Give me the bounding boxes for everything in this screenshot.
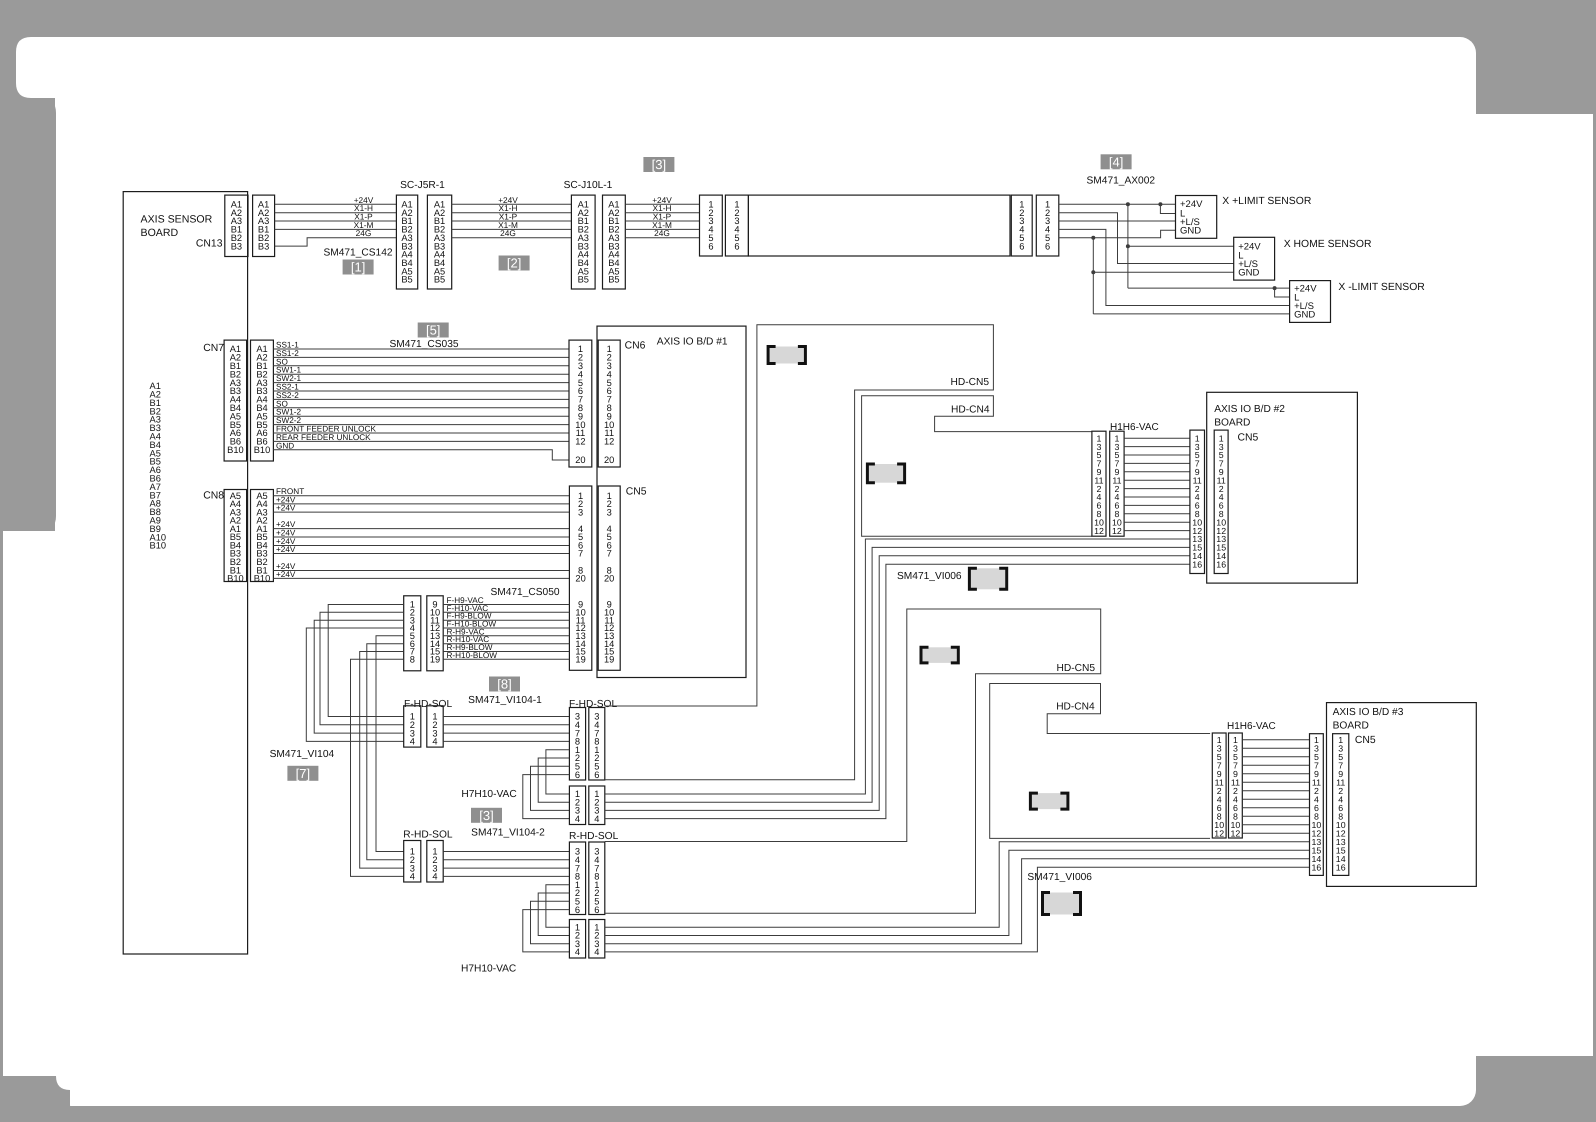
tag [8] [489,677,520,692]
svg-text:16: 16 [1216,559,1226,569]
wire SO [273,365,569,367]
connector H7H10-VAC upper right [589,786,605,825]
svg-text:B5: B5 [608,275,619,285]
wire SW1-1 [273,373,569,375]
svg-text:SM471_CS050: SM471_CS050 [490,587,559,598]
svg-text:[1]: [1] [351,260,365,275]
tag [2] [499,256,530,271]
svg-text:B3: B3 [258,241,269,251]
svg-text:BOARD: BOARD [1333,721,1369,732]
svg-text:SM471_VI104-2: SM471_VI104-2 [471,828,545,839]
connector R-HD-SOL head left [569,842,585,915]
svg-text:4: 4 [432,737,437,747]
connector SC-J10L-1 right [603,195,626,289]
svg-text:7: 7 [578,549,583,559]
svg-text:6: 6 [708,241,713,251]
wire F-H10-BLOW [443,627,569,629]
wire X1-H [625,212,699,214]
wire GND bus down [1092,238,1094,314]
wire H1H6-VAC pin 12 [1124,530,1190,532]
svg-text:20: 20 [604,455,614,465]
svg-text:B10: B10 [254,574,271,584]
wire CS050 pin1 to F-HD-SOL pin1 [328,605,404,717]
svg-text:AXIS SENSOR: AXIS SENSOR [141,214,213,226]
wire H1H6-VAC lower pin 3 [1242,747,1309,749]
svg-text:12: 12 [1094,526,1104,536]
svg-text:CN7: CN7 [203,343,224,354]
wire H1H6-VAC pin 1 [1124,437,1190,439]
svg-text:6: 6 [575,905,580,915]
connector CN5 board3 cable side [1310,734,1324,876]
gray callout box in lower HD-CN5 loop [921,647,958,663]
wire CS050 pin8 to R-HD-SOL pin4 [351,659,404,876]
wire H1H6-VAC lower pin 12 [1242,832,1309,834]
wire H1H6-VAC pin 3 [1124,446,1190,448]
svg-text:GND: GND [276,441,294,450]
wire H1H6-VAC lower pin 9 [1242,773,1309,775]
wire F-H10-VAC [443,611,569,613]
svg-text:R-HD-SOL: R-HD-SOL [403,830,453,841]
svg-text:6: 6 [1019,241,1024,251]
wire FRONT FEEDER UNLOCK [273,432,569,434]
gray tab left [0,98,56,531]
wire R-HD-SOL pin to H7H10-VAC pin4 [523,910,570,952]
cable run box [748,195,1010,256]
wire X1-H [275,212,397,214]
svg-text:SM471_VI104: SM471_VI104 [270,749,335,760]
svg-text:B10: B10 [254,445,271,455]
connector F-HD-SOL head right [589,708,605,781]
wire H1H6-VAC lower pin 1 [1242,739,1309,741]
wire pin5 to X+LIMIT GND [1059,230,1176,238]
sensor box X +LIMIT SENSOR [1176,196,1217,239]
wire REAR FEEDER UNLOCK [273,440,569,442]
svg-text:19: 19 [575,655,585,665]
tag [1] [343,260,374,275]
connector H1H6-VAC upper right [1110,431,1124,536]
wire GND to X HOME [1093,271,1233,273]
junction dot [1091,236,1095,240]
wire H1H6-VAC lower pin 5 [1242,756,1309,758]
connector F-HD-SOL harness left [404,706,421,747]
svg-text:4: 4 [594,814,599,824]
svg-text:16: 16 [1336,863,1346,873]
svg-text:H7H10-VAC: H7H10-VAC [461,789,516,800]
svg-text:4: 4 [594,947,599,957]
wire R-H10-BLOW [443,658,569,660]
wire R-HD-SOL pin to H7H10-VAC pin2 [538,893,569,936]
svg-text:BOARD: BOARD [1214,418,1250,429]
wire +24V CN8-A3 [273,511,569,513]
connector SC-J10L-1 left [571,195,595,289]
svg-text:24G: 24G [654,228,670,238]
connector F-HD-SOL harness right [427,706,443,747]
wire R-HD-SOL 2 [443,859,569,861]
wire jog +24V to L row of X+LIMIT [1160,204,1175,213]
connector F-HD-SOL head left [569,708,585,781]
svg-text:HD-CN5: HD-CN5 [1057,663,1096,674]
wire SS2-1 [273,390,569,392]
connector CN7 cable side [251,340,274,461]
connector CN13 cable side [253,195,275,256]
wire H7H10 upper pin1 to CN5 pin13 [605,539,1190,794]
svg-text:BOARD: BOARD [141,227,179,239]
svg-text:AXIS IO B/D #2: AXIS IO B/D #2 [1214,404,1285,415]
svg-text:[8]: [8] [497,677,511,692]
svg-text:CN13: CN13 [196,239,223,250]
svg-text:12: 12 [575,437,585,447]
wire H1H6-VAC pin 10 [1124,521,1190,523]
wire H7H10 upper pin4 to CN5 pin16 [605,564,1190,818]
svg-text:20: 20 [575,455,585,465]
svg-text:4: 4 [575,947,580,957]
svg-text:B10: B10 [227,445,244,455]
wire H1H6-VAC pin 7 [1124,462,1190,464]
right page-edge flap [1470,114,1593,1056]
svg-text:[3]: [3] [479,808,493,823]
wire R-H9-VAC [443,635,569,637]
svg-text:4: 4 [410,737,415,747]
wire H1H6-VAC lower pin 10 [1242,824,1309,826]
wire GND [273,450,569,460]
wire F-HD-SOL pin to H7H10-VAC pin4 [523,775,570,819]
connector SM471_AX002 right [1036,195,1059,256]
svg-text:[4]: [4] [1109,154,1123,169]
tag [7] [287,766,318,781]
wire H1H6-VAC pin 2 [1124,488,1190,490]
svg-text:X HOME SENSOR: X HOME SENSOR [1284,239,1372,250]
tag [4] [1101,154,1132,169]
svg-text:12: 12 [1231,829,1241,839]
wire X1-M [625,228,699,230]
connector H1H6-VAC lower right [1229,733,1243,838]
svg-text:6: 6 [594,905,599,915]
gray callout box near board1 [768,347,805,364]
connector CN5 cable side [569,486,591,670]
svg-text:[7]: [7] [296,766,310,781]
wire R-HD-SOL pin to H7H10-VAC pin3 [531,901,570,943]
wire R-HD-SOL 1 [443,851,569,853]
svg-text:AXIS IO B/D #3: AXIS IO B/D #3 [1333,707,1404,718]
wire +24V CN13-A1 to SC-J5R-1 [275,203,397,205]
gray callout box SM471_VI006 lower [1043,893,1081,915]
wire R-HD-SOL 4 [443,875,569,877]
wire +24V CN8-A4 [273,503,569,505]
connector H7H10-VAC upper left [569,786,585,825]
wire SS1-2 [273,356,569,358]
wire harness loop HD-CN5 upper [605,325,994,780]
connector CN13 board side [225,195,248,256]
wire H1H6-VAC pin 8 [1124,513,1190,515]
svg-text:4: 4 [410,872,415,882]
wire +24V to X HOME [1128,245,1234,247]
svg-text:19: 19 [604,655,614,665]
wire R-H9-BLOW [443,651,569,653]
svg-text:R-HD-SOL: R-HD-SOL [569,831,619,842]
wire H1H6-VAC lower pin 7 [1242,764,1309,766]
junction dot [1126,244,1130,248]
junction dot [1158,202,1162,206]
svg-text:SM471_AX002: SM471_AX002 [1087,175,1156,186]
wire H1H6-VAC pin 4 [1124,496,1190,498]
svg-text:24G: 24G [500,228,516,238]
wire pin3 to X+LIMIT +L/S [1059,220,1176,222]
left page-edge flap bottom [3,531,120,1076]
svg-text:24G: 24G [356,228,372,238]
wire +24V CN8-B5 [273,536,569,538]
svg-text:[3]: [3] [652,157,666,172]
wire H1H6-VAC lower pin 8 [1242,815,1309,817]
svg-text:6: 6 [734,241,739,251]
svg-text:+24V: +24V [276,545,296,554]
wire F-HD-SOL 1 [443,716,569,718]
gray callout box in lower HD-CN4 loop [1030,793,1068,809]
wire H1H6-VAC pin 5 [1124,454,1190,456]
gray callout box SM471_VI006 upper [969,568,1006,589]
left page-edge flap top [16,37,120,98]
tag [3] [643,157,674,172]
wire X1-H [452,212,572,214]
wire SS2-2 [273,398,569,400]
svg-text:CN5: CN5 [626,487,647,498]
gray bottom-right step [1481,1056,1596,1122]
connector CN5 board2 cable side [1190,430,1205,573]
svg-text:CN6: CN6 [625,341,646,352]
wire CS050 pin6 to R-HD-SOL pin2 [367,644,404,860]
connector CN5 board side [598,486,620,670]
wire H1H6-VAC lower pin 11 [1242,781,1309,783]
connector CN5 board2 board side [1214,430,1228,573]
wire F-HD-SOL 3 [443,732,569,734]
wire R-HD-SOL 3 [443,867,569,869]
connector H1H6-VAC upper left [1092,431,1106,536]
connector R-HD-SOL head right [589,842,605,915]
connector SC-J5R-1 right [427,195,451,289]
svg-text:12: 12 [604,437,614,447]
wire F-HD-SOL pin to H7H10-VAC pin1 [546,750,570,794]
svg-text:X -LIMIT SENSOR: X -LIMIT SENSOR [1338,282,1425,293]
svg-text:B3: B3 [231,241,242,251]
svg-text:12: 12 [1112,526,1122,536]
svg-text:20: 20 [575,574,585,584]
wire +24V CN8-A1 [273,528,569,530]
connector CN5 board3 board side [1333,734,1349,876]
svg-text:HD-CN4: HD-CN4 [951,405,990,416]
svg-text:[5]: [5] [426,323,440,338]
svg-text:16: 16 [1312,863,1322,873]
wire pin4 to X-LIMIT +L/S [1059,229,1290,305]
svg-text:SM471_CS142: SM471_CS142 [323,248,392,259]
gray callout box in HD-CN4 loop [867,464,904,483]
tag [5] [418,323,449,338]
wire CS050 pin4 to F-HD-SOL pin4 [306,628,403,741]
svg-text:F-HD-SOL: F-HD-SOL [569,699,617,710]
connector H7H10-VAC lower right [589,920,605,959]
wire X1-M [452,228,572,230]
svg-text:SM471_CS035: SM471_CS035 [389,339,458,350]
svg-text:SM471_VI006: SM471_VI006 [897,571,962,582]
wire H1H6-VAC lower pin 6 [1242,807,1309,809]
svg-text:SM471_VI006: SM471_VI006 [1027,872,1092,883]
wire H7H10 lower pin3 to CN5 pin14 [605,859,1310,944]
wire F-HD-SOL 2 [443,724,569,726]
connector SM471_CS050 left side [404,596,421,671]
wire H1H6-VAC pin 9 [1124,471,1190,473]
wire +24V to X-LIMIT [1128,287,1290,289]
sensor box X -LIMIT SENSOR [1290,281,1331,323]
wire CS050 pin2 to F-HD-SOL pin2 [320,612,404,725]
board AXIS IO B/D #2 outline [1207,392,1358,583]
svg-text:CN8: CN8 [203,491,224,502]
wire 24G with jog from B3 [275,238,397,246]
svg-text:GND: GND [1294,309,1315,320]
svg-text:3: 3 [607,507,612,517]
wire R-H10-VAC [443,643,569,645]
wire H7H10 lower pin4 to CN5 pin16 [605,867,1310,952]
svg-text:SC-J5R-1: SC-J5R-1 [400,180,445,191]
svg-text:H7H10-VAC: H7H10-VAC [461,964,516,975]
wire X1-P [452,220,572,222]
svg-text:+24V: +24V [276,570,296,579]
svg-text:4: 4 [575,814,580,824]
svg-text:+24V: +24V [276,504,296,513]
svg-text:GND: GND [1180,226,1201,237]
svg-text:12: 12 [1214,829,1224,839]
wire 24G [625,237,699,239]
wire F-HD-SOL 4 [443,740,569,742]
wire pin1 +24V to X+LIMIT [1059,203,1176,205]
svg-text:HD-CN4: HD-CN4 [1056,702,1095,713]
junction dot [1091,270,1095,274]
wire +24V CN8-B10 [273,577,569,579]
wire X1-P [275,220,397,222]
gray bottom-left step [0,1076,70,1106]
wire +24V CN8-B4 [273,545,569,547]
connector CN8 cable side [251,490,274,582]
wire SW2-1 [273,382,569,384]
junction dot [1126,202,1130,206]
wire CS050 pin3 to F-HD-SOL pin3 [314,620,404,733]
board AXIS SENSOR BOARD outline [123,192,247,954]
junction dot [1273,286,1277,290]
svg-text:B5: B5 [434,275,445,285]
wire H1H6-VAC pin 6 [1124,504,1190,506]
wire harness loop HD-CN5 lower [605,609,1101,913]
svg-text:[2]: [2] [507,256,521,271]
wire H1H6-VAC lower pin 4 [1242,798,1309,800]
wire CS050 pin5 to R-HD-SOL pin1 [376,636,404,852]
wire SW1-2 [273,415,569,417]
wire X1-M [275,228,397,230]
connector H1H6-VAC lower left [1212,733,1226,838]
connector CN7 board side [224,340,247,461]
svg-text:6: 6 [1045,241,1050,251]
sensor box X HOME SENSOR [1234,237,1275,280]
svg-text:B10: B10 [150,541,167,551]
connector R-HD-SOL harness left [404,841,421,883]
wire F-HD-SOL pin to H7H10-VAC pin3 [531,766,570,810]
wire F-HD-SOL pin to H7H10-VAC pin2 [538,758,569,802]
connector 6-pin right of cable [725,195,748,256]
wire H7H10 lower pin2 to CN5 pin15 [605,850,1310,935]
tag [3] lower [471,808,502,823]
svg-text:B10: B10 [227,574,244,584]
connector CN6 board side [598,340,620,467]
wire SS1-1 [273,348,569,350]
wire CS050 pin7 to R-HD-SOL pin3 [360,652,404,869]
connector 6-pin before AX002 left [1011,195,1032,256]
svg-text:SM471_VI104-1: SM471_VI104-1 [468,695,542,706]
wire harness loop HD-CN4 upper [862,396,1092,537]
wire X1-P [625,220,699,222]
svg-text:B5: B5 [578,275,589,285]
wire harness loop HD-CN4 lower [990,684,1210,839]
wire H7H10 upper pin3 to CN5 pin14 [605,556,1190,811]
svg-text:6: 6 [575,770,580,780]
gray corner block top-right [1476,0,1596,114]
wire +24V SC-J5R-1 to SC-J10L-1 [452,203,572,205]
svg-text:16: 16 [1192,559,1202,569]
svg-text:X +LIMIT SENSOR: X +LIMIT SENSOR [1222,196,1312,207]
connector SM471_CS050 right side [427,596,443,671]
wire 24G [452,237,572,239]
svg-text:F-HD-SOL: F-HD-SOL [404,699,452,710]
wire SW2-2 [273,424,569,426]
wire +24V SC-J10L-1 to 6-pin connector [625,203,699,205]
wire pin2 to X HOME +L/S [1059,213,1234,264]
svg-text:B5: B5 [401,275,412,285]
svg-text:3: 3 [578,507,583,517]
svg-text:H1H6-VAC: H1H6-VAC [1227,721,1276,732]
connector CN8 board side [224,490,247,582]
board AXIS IO B/D #1 outline [597,326,746,677]
connector SC-J5R-1 left [396,195,417,289]
wire +24V CN8-B1 [273,570,569,572]
wire +24V bus down [1127,204,1129,288]
svg-text:7: 7 [607,549,612,559]
wire +24V CN8-B3 [273,553,569,555]
wire H7H10 upper pin2 to CN5 pin15 [605,547,1190,802]
wire F-H9-BLOW [443,619,569,621]
svg-text:20: 20 [604,574,614,584]
wire SO [273,407,569,409]
svg-text:SC-J10L-1: SC-J10L-1 [564,180,613,191]
wire H1H6-VAC pin 11 [1124,479,1190,481]
connector 6-pin left of cable [700,195,723,256]
wire jog +24V to L row of X-LIMIT [1275,288,1290,297]
connector H7H10-VAC lower left [569,920,585,959]
svg-text:4: 4 [432,872,437,882]
svg-text:HD-CN5: HD-CN5 [951,377,990,388]
svg-text:CN5: CN5 [1238,433,1259,444]
svg-text:8: 8 [410,655,415,665]
svg-text:R-H10-BLOW: R-H10-BLOW [447,651,498,660]
wire R-HD-SOL pin to H7H10-VAC pin1 [546,885,570,928]
connector CN6 cable side [569,340,592,467]
svg-text:CN5: CN5 [1355,735,1376,746]
wire GND to X-LIMIT [1093,313,1289,315]
svg-text:GND: GND [1238,268,1259,279]
wire FRONT CN8-A5 [273,495,569,497]
wire F-H9-VAC [443,604,569,606]
connector R-HD-SOL harness right [427,841,443,883]
svg-text:19: 19 [430,655,440,665]
board AXIS IO B/D #3 outline [1327,703,1477,887]
wire H7H10 lower pin1 to CN5 pin13 [605,842,1310,928]
wire H1H6-VAC lower pin 2 [1242,790,1309,792]
svg-text:AXIS IO B/D #1: AXIS IO B/D #1 [657,337,728,348]
svg-text:6: 6 [594,770,599,780]
